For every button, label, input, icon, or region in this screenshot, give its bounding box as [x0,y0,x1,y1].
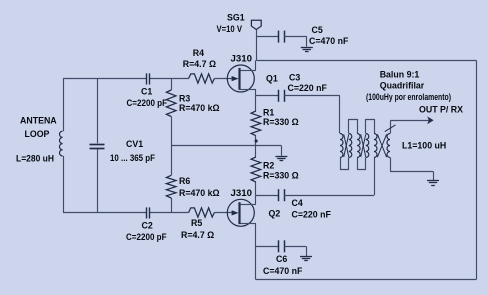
wire CV1 bottom [97,149,99,212]
svg-text:R=470 kΩ: R=470 kΩ [179,103,220,113]
svg-text:ANTENA: ANTENA [20,116,57,126]
wire C4 node to C4 [256,195,278,197]
resistor R3 [166,90,176,117]
wire bias ground stem [281,146,283,156]
svg-text:R4: R4 [193,48,204,58]
svg-text:C3: C3 [289,72,300,82]
wire C5 to ground [284,36,307,38]
wire R3 vertical [171,79,173,91]
svg-text:Quadrifilar: Quadrifilar [380,80,425,90]
wire bottom rail left [63,212,146,214]
wire C3 to balun [284,95,340,97]
junction node bias [255,139,258,142]
resistor R1 [251,111,261,136]
svg-text:OUT P/ RX: OUT P/ RX [419,104,463,114]
svg-text:R=4.7 Ω: R=4.7 Ω [181,230,214,240]
wire W1-W2 bottom link [341,158,349,170]
wire R1 to R2 [255,136,257,157]
resistor R5 [189,208,215,217]
svg-text:R=330 Ω: R=330 Ω [263,170,299,180]
capacitor C5 [278,31,280,43]
svg-text:J310: J310 [231,54,253,64]
resistor R2 [251,157,261,182]
svg-text:LOOP: LOOP [25,129,50,139]
resistor R4 [189,74,215,83]
svg-text:R5: R5 [191,218,202,228]
svg-text:Q1: Q1 [266,73,278,83]
wire Q2 drain [240,223,256,225]
transformer winding W4 [366,134,369,158]
svg-text:R1: R1 [263,107,274,117]
svg-text:(100uHy por enrolamento): (100uHy por enrolamento) [366,92,451,102]
transistor Q2 J310 [227,199,254,226]
wire supply to C5 [256,36,278,38]
wire CV1 top [97,79,99,144]
svg-text:Balun 9:1: Balun 9:1 [380,69,420,79]
wire R4 to Q1 gate [214,78,232,80]
capacitor C3 [278,90,280,102]
resistor R6 [166,175,176,198]
wire antenna left vertical [63,79,65,132]
svg-text:C6: C6 [276,254,287,264]
svg-text:J310: J310 [231,188,253,198]
svg-text:Q2: Q2 [269,208,281,218]
wire SG1 to supply node [256,30,258,61]
capacitor C6 [278,240,280,252]
transformer winding W5 [374,134,377,158]
wire Q2 drain to bottom rail [255,223,257,279]
wire C4 to balun [284,195,374,197]
capacitor C1 [146,73,148,84]
inductor antenna loop [60,131,63,156]
wire C6 to ground [284,246,306,248]
wire R2 to C4 node [255,182,257,195]
wire L1 top to out [390,120,392,133]
wire W4-W5 top link [366,120,375,134]
transformer winding W3 [357,134,360,158]
svg-text:CV1: CV1 [126,139,143,149]
svg-text:SG1: SG1 [227,13,245,23]
wire W3-W4 bottom link [358,158,366,170]
wire R1 top [255,96,257,111]
power source SG1 symbol [251,20,261,29]
svg-text:C=2200 pF: C=2200 pF [127,98,168,108]
svg-text:R=470 kΩ: R=470 kΩ [179,188,220,198]
svg-text:R3: R3 [179,93,190,103]
svg-text:C5: C5 [312,25,323,35]
svg-text:C=470 nF: C=470 nF [263,266,303,276]
wire top rail +10V [256,60,476,62]
capacitor C2 [146,207,148,218]
svg-text:L1=100 uH: L1=100 uH [402,140,446,150]
wire right rail [476,60,478,279]
svg-text:V=10 V: V=10 V [217,24,243,34]
wire bias to divider [171,145,281,147]
arrow OUT P/ RX [427,116,433,124]
svg-text:C4: C4 [292,198,303,208]
transformer winding W1 [340,134,343,158]
wire L1 bottom to ground [390,158,392,172]
capacitor CV1 variable [90,144,105,146]
transformer winding W2 [349,134,352,158]
svg-text:C=470 nF: C=470 nF [309,36,349,46]
wire W2-W3 top link [349,120,358,134]
wire bottom rail [256,279,476,281]
ground at C6 [300,256,312,258]
ground at L1 [427,180,439,182]
svg-text:C1: C1 [141,87,152,97]
wire Q1 drain [240,70,256,72]
ground at C5 [301,47,313,49]
svg-text:C=220 nF: C=220 nF [292,210,332,220]
svg-text:R=330 Ω: R=330 Ω [263,117,299,127]
svg-text:C2: C2 [142,221,153,231]
svg-text:R2: R2 [263,161,274,171]
svg-text:R=4.7 Ω: R=4.7 Ω [183,59,216,69]
svg-text:L=280 uH: L=280 uH [16,154,54,164]
transistor Q1 J310 [227,65,254,92]
svg-text:C=220 nF: C=220 nF [288,83,328,93]
wire Q2 source [240,204,256,206]
wire Q1 source [240,89,256,91]
svg-text:10 ... 365 pF: 10 ... 365 pF [110,153,156,163]
svg-text:C=2200 pF: C=2200 pF [126,232,167,242]
wire Q1 source to C3 [256,95,278,97]
capacitor C4 [278,189,280,201]
inductor L1 secondary [387,134,390,158]
ground at bias node [275,156,287,158]
wire antenna top rail [63,78,146,80]
svg-text:R6: R6 [179,176,190,186]
wire Q2 drain to C6 [256,246,278,248]
tick mark on L1 wire [385,125,396,132]
